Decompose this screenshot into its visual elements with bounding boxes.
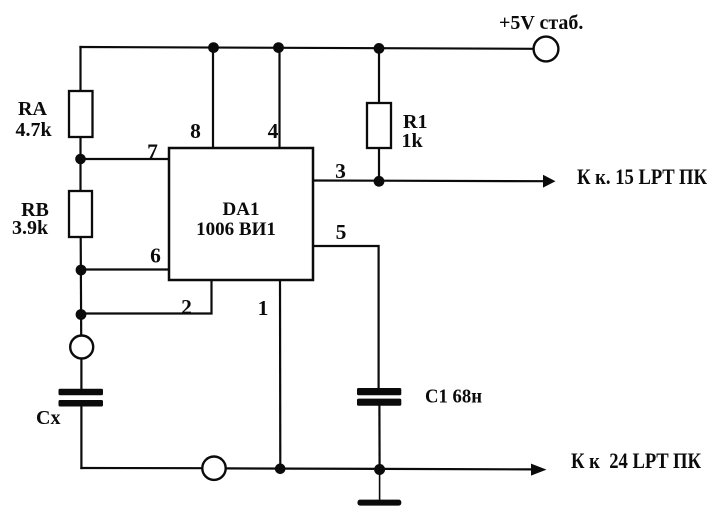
svg-text:2: 2 xyxy=(181,295,192,319)
svg-text:Cx: Cx xyxy=(36,407,60,429)
svg-text:3: 3 xyxy=(335,159,346,183)
svg-text:5: 5 xyxy=(336,220,347,244)
svg-text:DA1: DA1 xyxy=(223,199,260,220)
svg-text:8: 8 xyxy=(190,119,201,143)
svg-text:4.7k: 4.7k xyxy=(15,119,52,141)
svg-text:1: 1 xyxy=(258,296,269,320)
svg-text:К к. 15 LPT ПК: К к. 15 LPT ПК xyxy=(577,164,707,189)
svg-text:7: 7 xyxy=(147,140,158,164)
svg-text:1k: 1k xyxy=(402,130,424,152)
svg-text:3.9k: 3.9k xyxy=(12,217,49,239)
svg-text:6: 6 xyxy=(150,244,161,268)
svg-text:RA: RA xyxy=(18,98,47,120)
svg-text:1006 ВИ1: 1006 ВИ1 xyxy=(196,219,276,240)
svg-text:К к 24 LPT ПК: К к 24 LPT ПК xyxy=(571,448,701,473)
svg-text:+5V стаб.: +5V стаб. xyxy=(499,12,583,34)
svg-text:4: 4 xyxy=(268,119,279,143)
svg-text:C1 68н: C1 68н xyxy=(425,386,482,408)
